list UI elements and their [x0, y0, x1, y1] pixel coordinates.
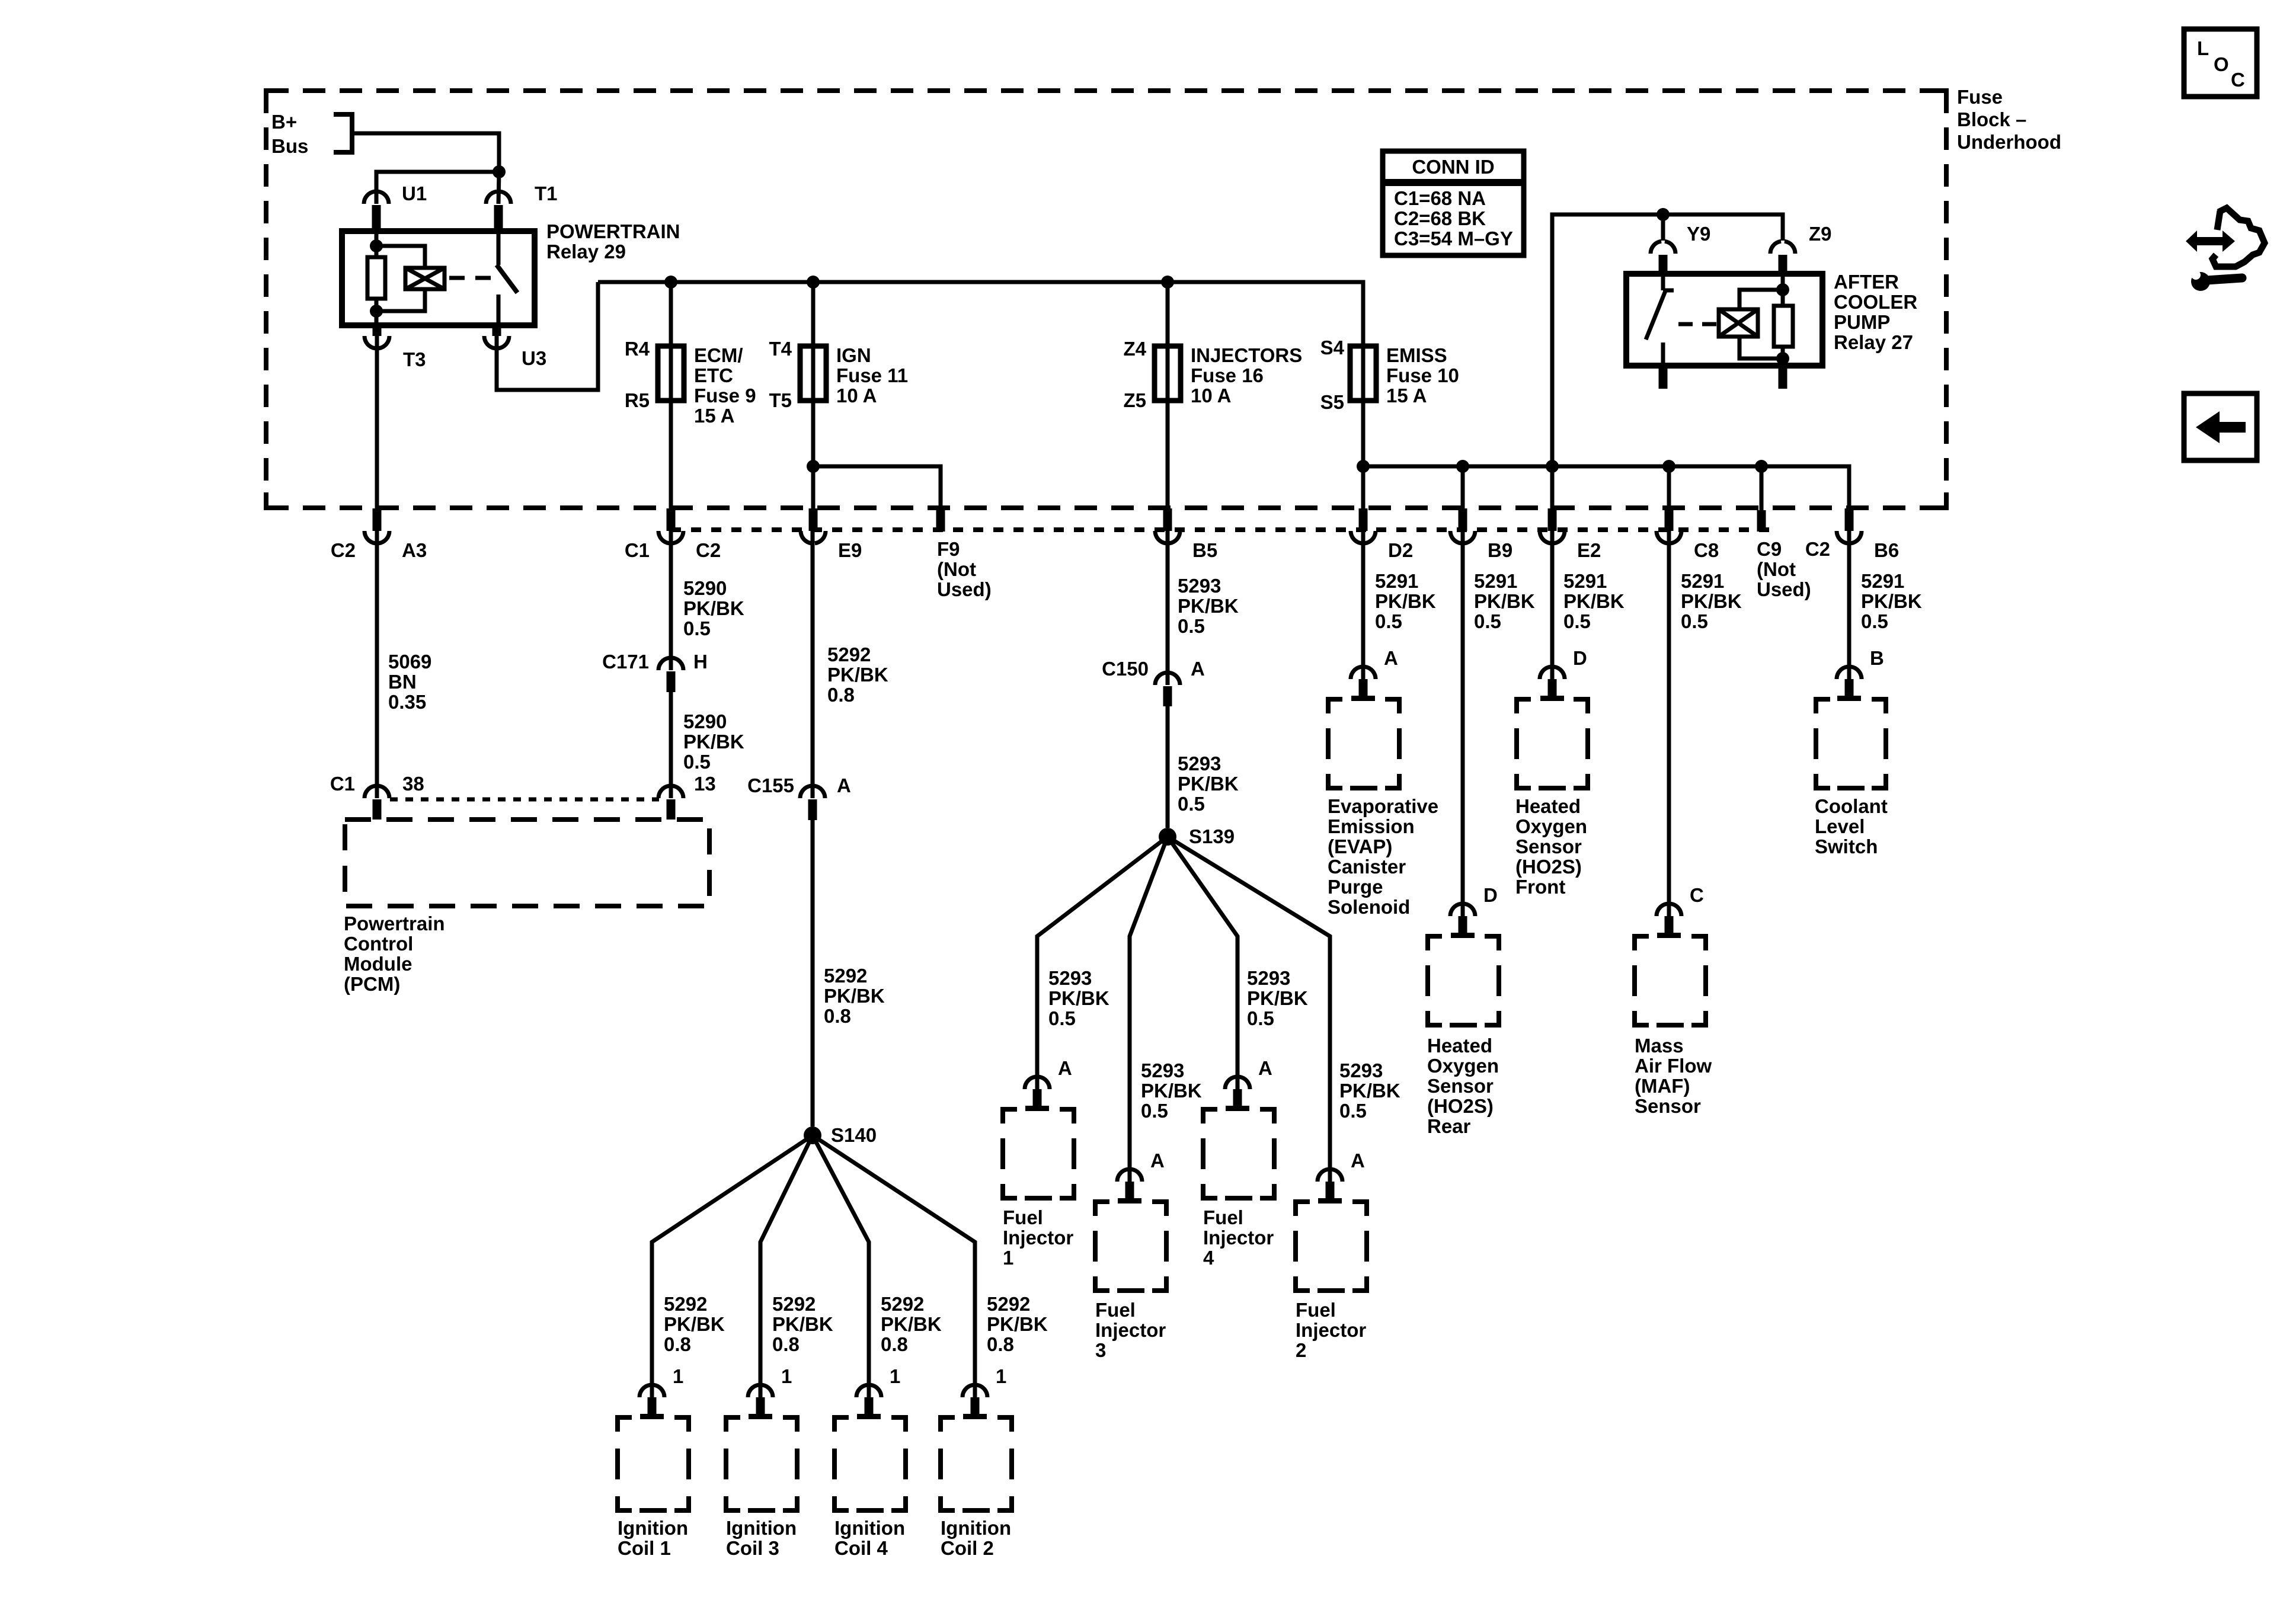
svg-text:0.5: 0.5 [1178, 615, 1205, 637]
relay 29 coil loop wire [376, 246, 425, 268]
svg-text:R4: R4 [625, 338, 650, 360]
relay 29 coil loop return wire [376, 289, 425, 311]
svg-text:Powertrain: Powertrain [344, 913, 445, 934]
fuse F11 IGN Fuse 11 10A (T4/T5) [769, 282, 908, 411]
wire label 5291 PK/BK 0.5 (C8) [1681, 570, 1742, 632]
svg-text:0.5: 0.5 [1375, 610, 1402, 632]
fuse block underhood dashed border (bottom edge) [266, 505, 1946, 510]
fuse block border corner pieces [266, 91, 1946, 508]
svg-text:Coil 1: Coil 1 [618, 1537, 671, 1559]
wire S139 to fuel injector 2 [1168, 837, 1330, 1182]
svg-text:0.5: 0.5 [1681, 610, 1708, 632]
wire label 5293 PK/BK 0.5 fuel injector 3 [1141, 1060, 1202, 1122]
svg-text:Z4: Z4 [1123, 338, 1146, 360]
connector pin E2 [1540, 508, 1601, 561]
wire label 5292 PK/BK 0.8 coil 4 [881, 1293, 942, 1355]
wire label 5290 PK/BK 0.5 upper [683, 577, 744, 639]
svg-text:5291: 5291 [1681, 570, 1724, 592]
wire label 5293 PK/BK 0.5 fuel injector 4 [1247, 967, 1308, 1029]
svg-text:Purge: Purge [1328, 876, 1383, 898]
svg-text:Coil 4: Coil 4 [834, 1537, 888, 1559]
svg-text:PK/BK: PK/BK [1375, 590, 1436, 612]
svg-text:Oxygen: Oxygen [1427, 1055, 1499, 1077]
svg-text:C2=68 BK: C2=68 BK [1394, 207, 1486, 229]
svg-text:Injector: Injector [1095, 1319, 1166, 1341]
svg-text:Injector: Injector [1296, 1319, 1366, 1341]
wire bus down to D2 stub [1361, 466, 1366, 516]
svg-text:5293: 5293 [1247, 967, 1290, 989]
svg-text:1: 1 [781, 1365, 792, 1387]
svg-text:15 A: 15 A [1386, 385, 1427, 406]
svg-text:0.8: 0.8 [772, 1333, 800, 1355]
svg-text:0.8: 0.8 [664, 1333, 691, 1355]
node bus tap IGN fuse [807, 276, 820, 289]
svg-text:PK/BK: PK/BK [1563, 590, 1625, 612]
svg-text:L: L [2197, 37, 2209, 59]
wire IGN fuse down to junction [811, 401, 816, 466]
connector C1 pin 13 at PCM [658, 773, 716, 820]
relay 27 coil loop return wire [1739, 337, 1783, 359]
svg-text:EMISS: EMISS [1386, 344, 1447, 366]
svg-text:PK/BK: PK/BK [1247, 987, 1308, 1009]
svg-text:C150: C150 [1102, 658, 1149, 680]
svg-text:PK/BK: PK/BK [1141, 1080, 1202, 1102]
svg-text:Injector: Injector [1003, 1227, 1073, 1249]
svg-text:5293: 5293 [1178, 575, 1221, 597]
wire EMISS fuse down to lower bus [1361, 401, 1366, 466]
svg-text:Fuel: Fuel [1296, 1299, 1336, 1321]
connector C150 pin A [1102, 658, 1205, 706]
svg-text:Fuel: Fuel [1095, 1299, 1136, 1321]
svg-text:Coil 3: Coil 3 [726, 1537, 779, 1559]
icon LOC box [2184, 29, 2257, 97]
coil (solenoid) inside relay 27 [1719, 309, 1758, 337]
svg-text:Coolant: Coolant [1815, 795, 1888, 817]
svg-text:PUMP: PUMP [1834, 311, 1890, 333]
svg-text:(MAF): (MAF) [1635, 1075, 1690, 1097]
connector pin A fuel injector 3 [1117, 1150, 1165, 1204]
fuse F16 INJECTORS Fuse 16 10A (Z4/Z5) [1123, 282, 1302, 411]
connector pin 1 ignition coil 3 [748, 1365, 792, 1419]
svg-text:5292: 5292 [772, 1293, 816, 1315]
svg-text:Coil 2: Coil 2 [941, 1537, 994, 1559]
svg-text:PK/BK: PK/BK [1339, 1080, 1400, 1102]
wire label 5291 PK/BK 0.5 (B9) [1474, 570, 1535, 632]
svg-text:Fuse 10: Fuse 10 [1386, 364, 1459, 386]
wire bus down to C8 stub [1667, 466, 1671, 516]
svg-text:T1: T1 [535, 183, 558, 204]
svg-text:5069: 5069 [388, 651, 431, 673]
svg-text:Fuse 16: Fuse 16 [1191, 364, 1264, 386]
svg-text:PK/BK: PK/BK [772, 1313, 833, 1335]
svg-text:0.35: 0.35 [388, 691, 426, 713]
svg-text:0.5: 0.5 [1563, 610, 1591, 632]
svg-text:5291: 5291 [1861, 570, 1904, 592]
svg-text:Fuel: Fuel [1003, 1206, 1043, 1228]
svg-text:5292: 5292 [664, 1293, 707, 1315]
svg-text:C2: C2 [1805, 538, 1830, 560]
svg-text:Rear: Rear [1427, 1115, 1471, 1137]
svg-text:Ignition: Ignition [618, 1517, 688, 1539]
svg-text:BN: BN [388, 671, 417, 693]
svg-text:H: H [693, 651, 708, 673]
svg-text:0.5: 0.5 [683, 751, 711, 773]
label Fuse Block - Underhood [1957, 86, 2061, 153]
svg-text:PK/BK: PK/BK [824, 985, 885, 1007]
wire junction to T1 [498, 172, 499, 204]
node junction above Y9 [1657, 208, 1670, 221]
svg-text:ETC: ETC [694, 364, 733, 386]
connector pin 1 ignition coil 4 [856, 1365, 900, 1419]
wire bus down to C9 stub [1760, 466, 1764, 516]
relay 29 coil branch wire [375, 231, 379, 246]
HO2S rear dashed box [1427, 936, 1499, 1137]
svg-text:C1: C1 [625, 539, 650, 561]
wire ECM fuse down to C1 connector [669, 401, 673, 508]
svg-text:0.5: 0.5 [1474, 610, 1501, 632]
fuse F9 ECM/ETC Fuse 9 15A (R4/R5) [625, 282, 756, 427]
svg-text:Y9: Y9 [1687, 223, 1710, 245]
svg-text:Canister: Canister [1328, 856, 1406, 878]
ignition coil 2 dashed box [941, 1417, 1012, 1559]
wire U3 to fuse bus riser [497, 282, 598, 390]
svg-text:B+: B+ [271, 111, 297, 133]
svg-text:3: 3 [1095, 1339, 1106, 1361]
wire label 5069 BN 0.35 [388, 651, 431, 713]
connector pin D HO2S front [1540, 647, 1587, 701]
svg-text:0.5: 0.5 [1141, 1100, 1168, 1122]
svg-text:A: A [837, 774, 851, 796]
svg-text:C2: C2 [331, 539, 356, 561]
connector U1 (relay 29 pin) [364, 183, 427, 231]
svg-text:(HO2S): (HO2S) [1427, 1095, 1494, 1117]
wire C150 to splice S139 [1166, 706, 1170, 828]
connector pin B5 [1155, 508, 1217, 561]
connector C2 pin A3 [331, 508, 427, 561]
CONN ID table [1383, 151, 1524, 255]
svg-text:Fuse 11: Fuse 11 [836, 364, 908, 386]
module PCM Powertrain Control Module dashed box [344, 820, 709, 995]
svg-text:A: A [1191, 658, 1205, 680]
svg-text:PK/BK: PK/BK [987, 1313, 1048, 1335]
svg-text:Underhood: Underhood [1957, 131, 2061, 153]
wire label 5292 PK/BK 0.8 coil 3 [772, 1293, 833, 1355]
svg-text:0.5: 0.5 [1339, 1100, 1367, 1122]
svg-text:C1=68 NA: C1=68 NA [1394, 187, 1486, 209]
svg-text:0.8: 0.8 [824, 1005, 851, 1027]
svg-text:0.5: 0.5 [1861, 610, 1888, 632]
relay 29 switch lower contact [497, 295, 501, 325]
svg-text:PK/BK: PK/BK [1474, 590, 1535, 612]
connector T3 (relay 29 pin) [364, 325, 426, 370]
svg-text:B6: B6 [1874, 539, 1899, 561]
wire B9 to HO2S rear [1461, 531, 1465, 916]
icon back arrow box [2184, 393, 2257, 460]
node bus tap ECM fuse [664, 276, 677, 289]
svg-text:Injector: Injector [1203, 1227, 1274, 1249]
fuse block underhood dashed border (left edge) [264, 91, 268, 508]
wire branch to F9 not used [813, 466, 941, 510]
relay 29 actuation dashed link [449, 276, 497, 280]
ignition coil 3 dashed box [726, 1417, 797, 1559]
MAF sensor dashed box [1635, 936, 1712, 1117]
svg-text:5292: 5292 [827, 644, 871, 665]
svg-text:5293: 5293 [1048, 967, 1092, 989]
wire A3 to PCM [375, 531, 379, 798]
svg-text:PK/BK: PK/BK [664, 1313, 725, 1335]
svg-text:(Not: (Not [1757, 558, 1796, 580]
connector pin A fuel injector 4 [1225, 1057, 1272, 1111]
wire S140 to ignition coil 1 [652, 1135, 813, 1397]
svg-text:AFTER: AFTER [1834, 271, 1899, 293]
svg-text:Block –: Block – [1957, 108, 2026, 130]
svg-text:Oxygen: Oxygen [1515, 815, 1587, 837]
connector Y9 (relay 27 pin) [1651, 223, 1710, 274]
wire label 5293 PK/BK 0.5 lower [1178, 753, 1239, 815]
wire top feed bus [598, 282, 1363, 346]
svg-text:O: O [2214, 53, 2229, 75]
svg-text:10 A: 10 A [1191, 385, 1231, 406]
svg-text:0.5: 0.5 [683, 617, 711, 639]
svg-text:PK/BK: PK/BK [1178, 773, 1239, 795]
connector pin D2 [1351, 508, 1413, 561]
svg-text:PK/BK: PK/BK [1048, 987, 1109, 1009]
svg-text:0.8: 0.8 [987, 1333, 1014, 1355]
svg-text:5293: 5293 [1141, 1060, 1184, 1081]
svg-text:C155: C155 [747, 774, 794, 796]
fuel injector 2 dashed box [1296, 1202, 1367, 1361]
svg-text:Switch: Switch [1815, 836, 1878, 857]
svg-text:Used): Used) [937, 578, 992, 600]
node lower bus tap D2 [1357, 460, 1370, 473]
svg-text:5292: 5292 [987, 1293, 1030, 1315]
svg-text:Used): Used) [1757, 578, 1811, 600]
svg-text:PK/BK: PK/BK [683, 731, 744, 753]
icon vehicle double arrow [2186, 231, 2235, 252]
connector C155 pin A [747, 774, 851, 820]
svg-text:1: 1 [890, 1365, 900, 1387]
svg-text:Air Flow: Air Flow [1635, 1055, 1712, 1077]
wire label 5292 PK/BK 0.8 lower [824, 965, 885, 1027]
svg-text:PK/BK: PK/BK [1861, 590, 1922, 612]
EVAP canister purge solenoid dashed box [1328, 699, 1438, 918]
wire bus down to B9 stub [1461, 466, 1465, 516]
svg-text:A: A [1150, 1150, 1165, 1172]
connector C1/C2 split pin [625, 508, 721, 561]
wire D2 to EVAP solenoid [1361, 531, 1366, 679]
svg-text:(PCM): (PCM) [344, 973, 400, 995]
svg-text:PK/BK: PK/BK [881, 1313, 942, 1335]
coil (solenoid) inside relay 29 [405, 268, 445, 289]
connector pin C MAF sensor [1657, 884, 1704, 938]
svg-text:5292: 5292 [824, 965, 867, 987]
resistor inside relay 27 [1774, 306, 1793, 347]
wire T3 down to fuse block edge [375, 336, 379, 508]
svg-text:Heated: Heated [1515, 795, 1581, 817]
relay 29 switch upper contact [497, 231, 501, 265]
svg-text:1: 1 [673, 1365, 683, 1387]
svg-text:(Not: (Not [937, 558, 976, 580]
svg-text:0.8: 0.8 [827, 684, 855, 706]
svg-text:0.5: 0.5 [1247, 1007, 1274, 1029]
ignition coil 4 dashed box [834, 1417, 906, 1559]
svg-text:5291: 5291 [1563, 570, 1607, 592]
svg-text:C3=54 M–GY: C3=54 M–GY [1394, 228, 1513, 249]
connector pin A fuel injector 1 [1025, 1057, 1072, 1111]
svg-text:ECM/: ECM/ [694, 344, 743, 366]
connector pin A fuel injector 2 [1318, 1150, 1365, 1204]
svg-text:B9: B9 [1488, 539, 1512, 561]
connector pin D HO2S rear [1450, 884, 1498, 938]
wire B+ bus to T1/U1 [352, 133, 499, 172]
svg-text:A: A [1058, 1057, 1072, 1079]
svg-text:C1: C1 [330, 773, 355, 795]
node lower bus tap E2 / relay feed [1546, 460, 1559, 473]
icon vehicle hood outline [2212, 208, 2265, 267]
svg-text:B: B [1870, 647, 1884, 669]
connector pin C8 [1657, 508, 1719, 561]
fuse block underhood dashed border (right edge) [1944, 91, 1949, 508]
node IGN fuse branch junction [807, 460, 820, 473]
wire C171 to PCM pin 13 [669, 692, 673, 798]
fuel injector 4 dashed box [1203, 1109, 1274, 1269]
node relay 29 coil bottom junction [370, 305, 383, 325]
svg-text:Z5: Z5 [1123, 389, 1146, 411]
relay 27 coil feed wire [1781, 274, 1785, 306]
connector pin 1 ignition coil 1 [639, 1365, 683, 1419]
svg-text:5293: 5293 [1178, 753, 1221, 774]
resistor inside relay 29 [367, 246, 385, 311]
wire label 5292 PK/BK 0.8 upper [827, 644, 888, 706]
node relay 29 coil top junction [370, 239, 383, 252]
dotted connector strip line [671, 527, 1769, 532]
svg-text:Heated: Heated [1427, 1035, 1492, 1057]
svg-text:CONN ID: CONN ID [1412, 156, 1494, 178]
wire E2 to HO2S front [1550, 531, 1555, 679]
svg-text:Relay 27: Relay 27 [1834, 331, 1913, 353]
svg-text:R5: R5 [625, 389, 650, 411]
svg-text:5290: 5290 [683, 710, 727, 732]
wire label 5291 PK/BK 0.5 (E2) [1563, 570, 1625, 632]
relay K27 AFTER COOLER PUMP Relay 27 box [1626, 271, 1917, 366]
svg-text:Evaporative: Evaporative [1328, 795, 1438, 817]
svg-text:C171: C171 [602, 651, 649, 673]
svg-text:U1: U1 [402, 183, 427, 204]
wire riser to after cooler pump relay [1552, 215, 1783, 466]
svg-text:10 A: 10 A [836, 385, 877, 406]
svg-text:A: A [1258, 1057, 1272, 1079]
node lower bus tap B9 [1456, 460, 1469, 473]
svg-text:A3: A3 [402, 539, 427, 561]
svg-text:C8: C8 [1694, 539, 1719, 561]
svg-text:Fuse: Fuse [1957, 86, 2003, 108]
svg-text:S140: S140 [831, 1124, 877, 1146]
svg-text:T5: T5 [769, 389, 792, 411]
svg-text:1: 1 [996, 1365, 1006, 1387]
svg-text:5293: 5293 [1339, 1060, 1383, 1081]
splice S139 [1159, 825, 1235, 847]
svg-text:Sensor: Sensor [1515, 836, 1582, 857]
svg-text:PK/BK: PK/BK [683, 597, 744, 619]
svg-text:D: D [1483, 884, 1498, 906]
node lower bus tap C8 [1662, 460, 1675, 473]
coolant level switch dashed box [1815, 699, 1888, 857]
svg-text:F9: F9 [937, 538, 960, 560]
svg-text:D2: D2 [1388, 539, 1413, 561]
svg-text:Level: Level [1815, 815, 1865, 837]
wire label 5292 PK/BK 0.8 coil 1 [664, 1293, 725, 1355]
svg-text:C2: C2 [696, 539, 721, 561]
wire S140 to ignition coil 3 [760, 1135, 813, 1397]
svg-text:PK/BK: PK/BK [827, 664, 888, 686]
wire INJECTORS fuse down to B5 connector [1166, 401, 1170, 508]
svg-text:Relay 29: Relay 29 [546, 241, 626, 263]
wire label 5293 PK/BK 0.5 upper [1178, 575, 1239, 637]
wire C155 to splice S140 [811, 820, 815, 1126]
splice S140 [804, 1124, 877, 1146]
wire label 5291 PK/BK 0.5 (D2) [1375, 570, 1436, 632]
icon wrench [2189, 270, 2242, 291]
wire B5 to C150 [1166, 531, 1170, 685]
connector Z9 (relay 27 pin) [1770, 223, 1832, 274]
svg-text:Ignition: Ignition [941, 1517, 1011, 1539]
wire label 5292 PK/BK 0.8 coil 2 [987, 1293, 1048, 1355]
node junction above T1 [493, 165, 506, 178]
svg-text:(EVAP): (EVAP) [1328, 836, 1392, 857]
wire C2 to C171 [669, 531, 673, 670]
svg-text:Fuse 9: Fuse 9 [694, 385, 756, 406]
relay 27 actuation dashed link [1678, 322, 1716, 327]
svg-text:4: 4 [1203, 1247, 1214, 1269]
svg-text:15 A: 15 A [694, 405, 734, 427]
svg-text:S139: S139 [1189, 825, 1235, 847]
wire S139 to fuel injector 3 [1130, 837, 1168, 1182]
connector T1 (relay 29 pin) [486, 183, 558, 231]
relay 27 pin stub lower left [1659, 366, 1668, 389]
svg-text:E2: E2 [1577, 539, 1601, 561]
svg-text:Module: Module [344, 953, 412, 975]
svg-text:Ignition: Ignition [834, 1517, 905, 1539]
wire junction to U1 [376, 172, 499, 204]
connector C2 pin B6 [1837, 508, 1899, 561]
svg-text:Sensor: Sensor [1635, 1095, 1701, 1117]
dotted PCM connector line [390, 798, 659, 802]
fuel injector 3 dashed box [1095, 1202, 1166, 1361]
relay 27 pin stub lower right [1779, 366, 1787, 389]
relay 27 switch lower contact [1661, 343, 1665, 366]
svg-text:T4: T4 [769, 338, 792, 360]
svg-text:A: A [1384, 647, 1398, 669]
svg-text:13: 13 [694, 773, 716, 795]
svg-text:Emission: Emission [1328, 815, 1415, 837]
svg-text:PK/BK: PK/BK [1681, 590, 1742, 612]
fuse F10 EMISS Fuse 10 15A (S4/S5) [1320, 337, 1459, 413]
wire C8 to MAF sensor [1667, 531, 1671, 916]
fuse block underhood dashed border (top edge) [266, 88, 1946, 93]
wire label 5291 PK/BK 0.5 (B6) [1861, 570, 1922, 632]
wire S140 to ignition coil 2 [813, 1135, 975, 1397]
svg-text:U3: U3 [522, 347, 546, 369]
svg-text:0.5: 0.5 [1048, 1007, 1076, 1029]
wire lower distribution bus [1363, 466, 1849, 508]
connector C171 pin H [602, 651, 708, 692]
svg-text:S4: S4 [1320, 337, 1345, 359]
B+ Bus source bracket [271, 111, 352, 157]
svg-text:Control: Control [344, 933, 413, 955]
svg-text:C9: C9 [1757, 538, 1782, 560]
svg-text:T3: T3 [403, 348, 426, 370]
svg-text:E9: E9 [838, 539, 862, 561]
